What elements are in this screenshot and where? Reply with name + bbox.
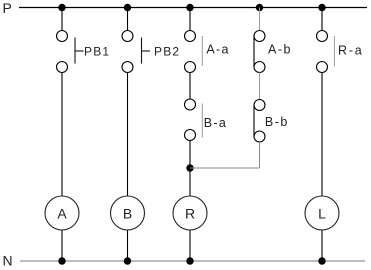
relay contact A-a (NO) [185, 31, 196, 73]
svg-text:PB1: PB1 [84, 44, 110, 58]
wire: branch 2 from coil B to N rail [127, 231, 129, 262]
node: junction of branch 3 and branch 4 [186, 164, 193, 171]
svg-text:A: A [57, 206, 67, 222]
pushbutton contact PB1 (NO) [57, 31, 68, 73]
wire: branch 3 from junction to coil R [189, 168, 191, 196]
node: P rail junction, branch 1 [58, 4, 65, 11]
svg-text:N: N [3, 253, 13, 269]
svg-text:L: L [318, 206, 326, 222]
wire: branch 1 from PB1 to coil A [61, 73, 63, 196]
svg-text:P: P [3, 0, 12, 16]
wire: branch 2 from P rail to PB2 [127, 8, 129, 31]
relay contact A-b (NC) [254, 31, 265, 73]
wire: branch 4 horizontal connector to branch 3 junction [190, 167, 260, 169]
wire: branch 3 from P rail to contact A-a [189, 8, 191, 31]
svg-text:B: B [123, 206, 132, 222]
B-a label bar [201, 104, 203, 138]
relay contact B-a (NO) [185, 99, 196, 141]
wire: branch 3 from coil R to N rail [189, 231, 191, 262]
svg-text:R: R [185, 206, 195, 222]
pushbutton contact PB2 (NO) [122, 31, 133, 73]
node: N rail junction, branch 5 [318, 257, 325, 264]
svg-text:A-b: A-b [268, 43, 292, 57]
PB1 actuator bar [74, 38, 76, 64]
wire: branch 5 from coil L to N rail [321, 231, 323, 262]
svg-text:PB2: PB2 [154, 44, 180, 58]
wire: branch 4 from B-b down [259, 142, 261, 168]
relay contact R-a (NO) [317, 31, 328, 73]
N rail wire [20, 260, 365, 262]
wire: branch 2 from PB2 to coil B [127, 73, 129, 196]
svg-text:B-a: B-a [204, 116, 227, 130]
node: N rail junction, branch 2 [124, 257, 131, 264]
wire: branch 4 from P rail to contact A-b [259, 8, 261, 31]
PB2 actuator bar [141, 38, 143, 64]
coil R (relay coil) [173, 196, 207, 230]
wire: branch 1 from P rail to PB1 [61, 8, 63, 31]
PB1 label tick [75, 50, 84, 52]
wire: branch 5 from P rail to contact R-a [321, 8, 323, 31]
P rail wire [19, 7, 367, 9]
coil B (relay coil) [111, 196, 145, 230]
svg-text:A-a: A-a [206, 42, 229, 56]
node: N rail junction, branch 1 [58, 257, 65, 264]
coil A (relay coil) [45, 196, 79, 230]
node: N rail junction, branch 3 [186, 257, 193, 264]
node: P rail junction, branch 3 [186, 4, 193, 11]
A-a label bar [201, 36, 203, 66]
coil L (lamp) [305, 196, 339, 230]
relay contact B-b (NC) [254, 100, 265, 143]
B-b closed-contact bridge [253, 105, 255, 137]
wire: branch 4 between A-b and B-b [259, 73, 261, 100]
A-b closed-contact bridge [253, 36, 255, 67]
wire: branch 5 from R-a to coil L [321, 73, 323, 196]
svg-text:B-b: B-b [265, 115, 289, 129]
node: P rail junction, branch 2 [124, 4, 131, 11]
node: P rail junction, branch 5 [318, 4, 325, 11]
wire: branch 3 between A-a and B-a [189, 73, 191, 100]
R-a label bar [333, 36, 335, 67]
node: P rail junction, branch 4 [256, 4, 263, 11]
PB2 label tick [142, 50, 151, 52]
wire: branch 3 from B-a to junction [189, 141, 191, 169]
wire: branch 1 from coil A to N rail [61, 231, 63, 262]
svg-text:R-a: R-a [338, 44, 364, 58]
